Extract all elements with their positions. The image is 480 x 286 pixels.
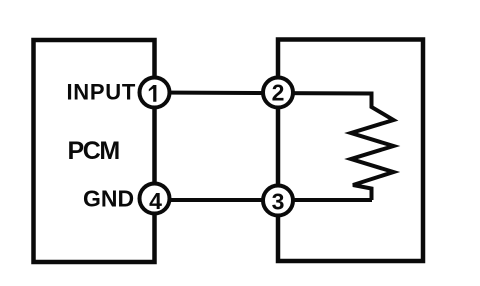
svg-text:4: 4 bbox=[149, 188, 162, 214]
svg-text:2: 2 bbox=[272, 80, 285, 106]
svg-text:INPUT: INPUT bbox=[67, 80, 137, 105]
svg-text:PCM: PCM bbox=[68, 137, 120, 165]
svg-text:3: 3 bbox=[272, 189, 285, 215]
svg-text:GND: GND bbox=[83, 186, 134, 212]
